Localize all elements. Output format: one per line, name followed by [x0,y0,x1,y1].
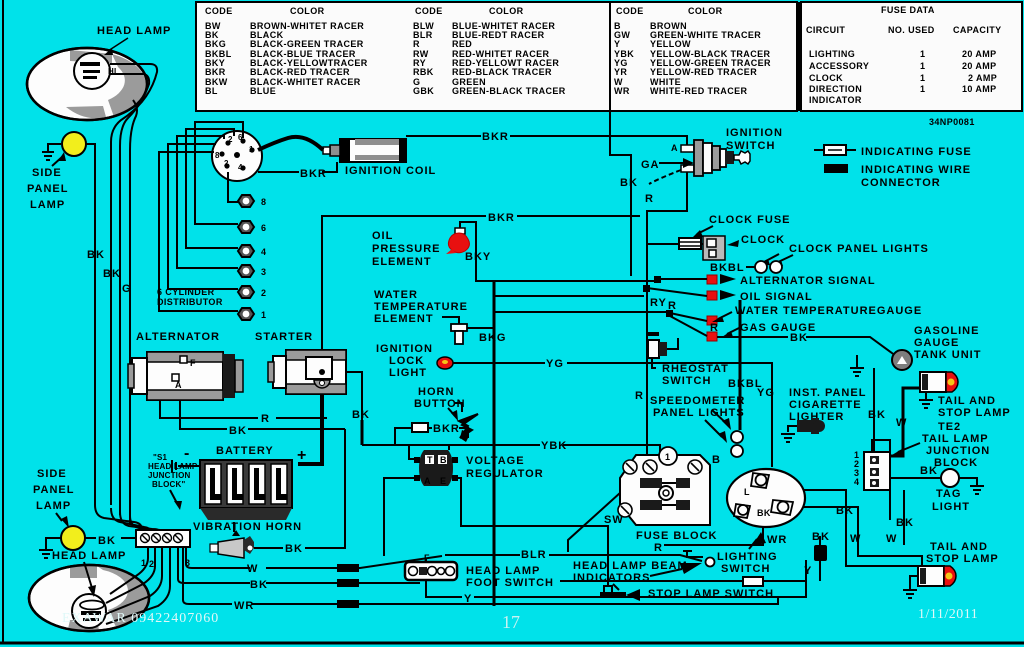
svg-text:PANEL: PANEL [33,484,74,496]
signal feeder junction dots [643,276,673,317]
head lamp bulb [74,53,116,89]
svg-text:1: 1 [665,452,670,462]
svg-text:R: R [654,542,663,554]
svg-text:"S1: "S1 [153,453,168,462]
wire head lamp bundle 3 [130,100,137,525]
svg-text:LIGHTING: LIGHTING [809,49,855,59]
svg-text:COLOR: COLOR [688,6,723,16]
svg-text:PRESSURE: PRESSURE [372,243,441,255]
svg-text:TE2: TE2 [938,421,961,433]
svg-text:JUNCTION: JUNCTION [148,471,191,480]
svg-text:BKG: BKG [205,39,226,49]
svg-text:1: 1 [920,61,925,71]
head lamp (top left) [27,48,147,120]
svg-text:INDICATING FUSE: INDICATING FUSE [861,146,972,158]
spark plug 6 [238,221,266,233]
svg-text:CIRCUIT: CIRCUIT [806,25,845,35]
svg-text:INDICATOR: INDICATOR [809,95,862,105]
svg-text:R: R [413,39,420,49]
legend indicating fuse [814,145,972,158]
svg-text:HEAD LAMP: HEAD LAMP [97,25,171,37]
battery negative terminal [172,460,200,472]
svg-text:R: R [645,193,654,205]
svg-text:BK: BK [98,535,116,547]
head lamp junction block (bottom left) [136,530,190,547]
svg-text:CODE: CODE [415,6,443,16]
svg-text:R: R [668,300,677,312]
svg-text:BK: BK [790,332,808,344]
svg-text:WR: WR [614,86,630,96]
svg-text:BK: BK [285,543,303,555]
svg-text:OIL SIGNAL: OIL SIGNAL [740,291,813,303]
wires junction block down to head lamp [106,547,170,624]
svg-text:ACCESSORY: ACCESSORY [809,61,869,71]
wire W upper lamp down [891,388,920,456]
wire regulator A to left down [384,478,414,556]
svg-text:34NP0081: 34NP0081 [929,117,975,127]
fuse block [618,447,710,525]
svg-text:8: 8 [215,151,220,160]
ignition switch [681,140,750,176]
svg-text:HEAD LAMP: HEAD LAMP [466,565,540,577]
svg-text:BLOCK: BLOCK [934,457,978,469]
svg-text:CAPACITY: CAPACITY [953,25,1002,35]
svg-text:1: 1 [249,145,254,154]
svg-text:LIGHTING: LIGHTING [717,551,778,563]
svg-text:F: F [190,358,196,368]
svg-text:BK: BK [229,425,247,437]
svg-text:GASOLINE: GASOLINE [914,325,979,337]
cigarette lighter [788,418,825,434]
svg-text:R: R [635,390,644,402]
wire BKG from water element down [479,281,506,606]
svg-text:STARTER: STARTER [255,331,313,343]
wire R alternator to right [160,400,327,425]
head lamp (bottom) [29,565,149,631]
svg-text:BKY: BKY [465,251,491,263]
svg-text:LIGHT: LIGHT [389,367,427,379]
side panel lamp (bottom) [61,526,85,550]
rheostat switch [648,332,678,368]
svg-text:CLOCK FUSE: CLOCK FUSE [709,214,791,226]
svg-text:VOLTAGE: VOLTAGE [466,455,525,467]
svg-text:2 AMP: 2 AMP [968,73,997,83]
head lamp beam indicators label [573,560,702,584]
wires from top into junction block [95,505,160,530]
svg-text:HEAD LAMP: HEAD LAMP [52,550,126,562]
clock panel lights label [758,243,929,266]
clock [703,236,725,260]
svg-text:STOP LAMP: STOP LAMP [926,553,999,565]
wire regulator E to stop lamp switch [458,478,608,586]
svg-text:A: A [424,476,431,486]
svg-text:B: B [712,454,721,466]
svg-text:1: 1 [920,73,925,83]
svg-text:SW: SW [604,514,624,526]
svg-text:PANEL: PANEL [27,183,68,195]
svg-text:BLACK-GREEN TRACER: BLACK-GREEN TRACER [250,39,364,49]
svg-text:BLOCK": BLOCK" [152,480,185,489]
alternator [128,352,243,400]
svg-text:-: - [184,445,189,462]
svg-text:BK: BK [103,268,121,280]
svg-text:LAMP: LAMP [36,500,71,512]
svg-text:BKR: BKR [433,423,460,435]
dash panel boundary wire BKR [322,212,640,420]
lighting switch [727,469,805,527]
starter [268,350,346,394]
side panel lamp label [27,152,68,211]
svg-text:FUSE BLOCK: FUSE BLOCK [636,530,718,542]
svg-text:BLACK-RED TRACER: BLACK-RED TRACER [250,67,350,77]
svg-text:A: A [175,380,182,390]
svg-text:4: 4 [854,477,859,487]
ground under upper tail lamp [919,392,933,408]
svg-text:IGNITION: IGNITION [726,127,783,139]
ground at tag light [959,478,984,494]
plug wire loop 2 [168,144,238,289]
lighting switch white dot [706,558,715,567]
svg-text:TEMPERATURE: TEMPERATURE [374,301,468,313]
spark plug 3 [238,265,266,277]
oil pressure element label [372,230,441,268]
spark plug 2 [238,286,266,298]
svg-text:BLUE: BLUE [250,86,276,96]
wire W bottom [186,547,442,575]
svg-text:TAIL AND: TAIL AND [938,395,996,407]
svg-text:HEAD LAMP BEAM: HEAD LAMP BEAM [573,560,688,572]
wire BK bottom [178,547,420,591]
wire BK horn to right [254,429,345,555]
wire WR bottom [183,547,778,612]
voltage regulator label [466,455,544,480]
tail and stop lamp lower label [926,541,999,565]
plug wire loop 3 [177,136,238,268]
svg-text:2: 2 [224,159,229,168]
svg-text:GAUGE: GAUGE [914,337,959,349]
svg-text:COLOR: COLOR [489,6,524,16]
svg-text:BKR: BKR [300,168,327,180]
svg-text:SWITCH: SWITCH [726,140,775,152]
svg-text:BKBL: BKBL [710,262,745,274]
svg-text:W: W [886,533,897,545]
svg-text:STOP LAMP: STOP LAMP [938,407,1011,419]
svg-text:B: B [440,455,447,465]
wire BK bottom side lamp [85,535,136,547]
wire Y vertical right [804,560,812,581]
head lamp label [97,25,171,55]
svg-text:BK: BK [920,465,938,477]
svg-text:SIDE: SIDE [32,167,62,179]
plug wire loop 4 [186,129,238,248]
svg-text:IGNITION: IGNITION [376,343,433,355]
rheostat switch label [662,363,729,387]
svg-text:L: L [744,487,750,497]
svg-text:INDICATING WIRE: INDICATING WIRE [861,164,971,176]
left border line [2,0,4,643]
tag light label [932,488,970,513]
wire loop to regulator left [409,446,414,459]
wire BKBL vertical [728,300,763,430]
svg-text:WATER: WATER [374,289,418,301]
svg-text:1: 1 [261,310,266,320]
svg-text:NO. USED: NO. USED [888,25,935,35]
svg-text:R: R [261,413,270,425]
svg-text:TAIL AND: TAIL AND [930,541,988,553]
svg-text:PANEL LIGHTS: PANEL LIGHTS [653,407,745,419]
svg-text:4: 4 [261,247,266,257]
ignition lock light label [376,343,433,379]
clock fuse [647,238,701,249]
inst panel cigarette lighter label [789,387,866,423]
plug wire cap to 8 [228,172,238,202]
svg-text:IGNITION COIL: IGNITION COIL [345,165,436,177]
svg-text:RY: RY [650,297,667,309]
svg-text:BATTERY: BATTERY [216,445,274,457]
svg-text:RED-BLACK TRACER: RED-BLACK TRACER [452,67,552,77]
svg-text:CIGARETTE: CIGARETTE [789,399,862,411]
svg-text:YR: YR [614,67,627,77]
speedometer panel lights label [650,395,745,419]
battery [200,460,292,520]
svg-text:WHITE-RED TRACER: WHITE-RED TRACER [650,86,747,96]
svg-text:SIDE: SIDE [37,468,67,480]
oil signal lamp [707,290,813,303]
svg-text:RED: RED [452,39,472,49]
fuse data table [799,2,1022,111]
tail and stop lamp upper label [938,395,1011,419]
gasoline tank unit [892,350,912,370]
wire BKR coil to ignition switch [406,131,687,145]
svg-text:2: 2 [261,288,266,298]
svg-text:FOOT SWITCH: FOOT SWITCH [466,577,554,589]
wire side lamp to bottom [86,144,95,505]
svg-text:BKR: BKR [205,67,226,77]
water temperature gauge lamp [707,305,922,325]
wires BK and W to lower tail lamp [802,440,922,566]
svg-text:VIBRATION HORN: VIBRATION HORN [193,521,302,533]
wire oil signal feed [494,311,668,313]
wire BK tank unit down [868,368,886,452]
battery label [184,445,306,464]
ignition lock light [437,357,453,369]
svg-text:BK: BK [250,579,268,591]
svg-text:Y: Y [464,593,472,605]
svg-text:YELLOW-RED TRACER: YELLOW-RED TRACER [650,67,757,77]
svg-text:LIGHT: LIGHT [932,501,970,513]
svg-text:STOP LAMP SWITCH: STOP LAMP SWITCH [648,588,774,600]
svg-text:CLOCK PANEL LIGHTS: CLOCK PANEL LIGHTS [789,243,929,255]
svg-text:1: 1 [920,84,925,94]
svg-text:BK: BK [868,409,886,421]
svg-text:BK: BK [352,409,370,421]
svg-text:YBK: YBK [541,440,567,452]
color code table box 2 [610,2,797,111]
svg-text:COLOR: COLOR [290,6,325,16]
svg-text:BK: BK [812,531,830,543]
wire R rheostat down [635,302,647,460]
svg-text:WATER TEMPERATUREGAUGE: WATER TEMPERATUREGAUGE [735,305,922,317]
svg-text:SWITCH: SWITCH [662,375,711,387]
ignition switch label [726,127,783,152]
diode on Y wire [812,531,830,581]
water temperature element label [374,289,468,325]
ground under lower tail lamp [903,576,918,598]
clock fuse label [692,214,791,238]
svg-text:20 AMP: 20 AMP [962,49,997,59]
svg-text:1: 1 [920,49,925,59]
wire BK alternator down [180,400,345,437]
wire fuse block diagonal to BLR [568,483,631,552]
svg-text:SPEEDOMETER: SPEEDOMETER [650,395,745,407]
svg-text:2: 2 [149,559,154,569]
svg-text:G: G [122,283,132,295]
tail and stop lamp upper [920,372,958,392]
head lamp foot switch label [466,565,554,589]
svg-text:CODE: CODE [205,6,233,16]
plug wire loop 1 [159,152,238,311]
svg-text:LOCK: LOCK [389,355,424,367]
wire YG lock light to rheostat [453,358,772,467]
horn fuse BKR [395,423,468,445]
svg-text:YG: YG [546,358,564,370]
wire R ignition switch down [645,170,687,302]
wire Y from foot switch [426,560,806,605]
svg-text:8: 8 [261,197,266,207]
pointer head lamp bottom [84,562,92,588]
head lamp junction block label (small) [148,453,198,510]
svg-text:TAIL LAMP: TAIL LAMP [922,433,989,445]
svg-text:YG: YG [757,387,775,399]
wire BK starter right down [346,372,370,445]
svg-text:TANK UNIT: TANK UNIT [914,349,981,361]
svg-text:17: 17 [502,612,520,632]
svg-text:WR: WR [767,534,787,546]
thick wire distributor to coil [258,137,323,150]
svg-text:JUNCTION: JUNCTION [926,445,990,457]
alternator signal lamp [707,274,876,287]
svg-text:GBK: GBK [413,86,434,96]
svg-text:+: + [297,447,306,464]
svg-text:4: 4 [238,163,243,172]
ground at side panel lamp [42,144,61,160]
TE2 junction block [864,452,890,490]
svg-text:RBK: RBK [413,67,434,77]
wire regulator top to YBK [448,445,450,450]
wire GA arrow to switch [641,158,694,171]
svg-text:CODE: CODE [616,6,644,16]
vibration horn [210,522,254,558]
svg-text:ALTERNATOR SIGNAL: ALTERNATOR SIGNAL [740,275,876,287]
horn button label [414,386,466,412]
wire YBK [362,440,660,455]
6 cylinder distributor label [157,287,223,307]
svg-text:BK: BK [757,508,771,518]
svg-text:BK: BK [620,177,638,189]
head lamp foot switch [405,553,457,580]
svg-text:2: 2 [228,135,233,144]
bottom border line [0,642,1024,645]
spark plug 1 [238,308,266,320]
wire WR label [767,534,787,546]
wire head lamp bundle 1 [110,64,157,505]
distributor cap [212,131,262,181]
spark plug 8 [238,195,266,207]
svg-text:CONNECTOR: CONNECTOR [861,177,941,189]
svg-text:R: R [710,322,719,334]
ground at cigarette lighter [781,434,795,442]
svg-text:BKG: BKG [479,332,506,344]
svg-text:INDICATORS: INDICATORS [573,572,650,584]
svg-text:LAMP: LAMP [30,199,65,211]
spark plug 4 [238,245,266,257]
svg-text:YELLOW: YELLOW [650,39,691,49]
speedometer panel lights [705,410,743,457]
tag light [890,465,959,487]
clock label [727,234,785,247]
svg-text:1/11/2011: 1/11/2011 [918,607,978,622]
oil pressure element [446,228,469,254]
color code table box 1 [196,2,610,111]
svg-text:A: A [671,143,678,153]
fuse block labels [604,454,763,554]
ground at bottom side lamp [39,538,61,558]
svg-text:CLOCK: CLOCK [741,234,785,246]
svg-text:BK: BK [87,249,105,261]
wire BKR distributor to coil bottom [258,162,337,180]
stop lamp switch symbol [600,584,640,601]
wire head lamp bundle 2 [110,74,149,515]
side panel lamp bottom label [33,468,74,528]
svg-text:ELEMENT: ELEMENT [374,313,434,325]
svg-text:E: E [440,476,446,486]
svg-text:EXAWAR 09422407060: EXAWAR 09422407060 [62,611,219,626]
gasoline gauge tank unit label [914,325,981,361]
stop lamp fuse on wire [560,577,806,586]
junction block pin numbers [141,558,190,569]
clock panel lights [746,261,782,273]
svg-text:BKR: BKR [482,131,509,143]
svg-text:GREEN-BLACK TRACER: GREEN-BLACK TRACER [452,86,566,96]
svg-text:TAG: TAG [936,488,961,500]
svg-text:WR: WR [234,600,254,612]
svg-text:HORN: HORN [418,386,454,398]
svg-text:BLR: BLR [521,549,547,561]
svg-text:6: 6 [261,223,266,233]
svg-text:GA: GA [641,159,660,171]
svg-text:HEAD LAMP: HEAD LAMP [148,462,198,471]
wire BLR from foot switch [445,549,702,561]
svg-text:REGULATOR: REGULATOR [466,468,544,480]
water temperature element [442,317,494,344]
svg-text:W: W [247,563,258,575]
wire BK ignition switch down [610,111,638,276]
svg-text:CLOCK: CLOCK [809,73,843,83]
svg-text:RHEOSTAT: RHEOSTAT [662,363,729,375]
svg-text:10 AMP: 10 AMP [962,84,997,94]
wire BKBL to clock lights [701,244,745,274]
ground top right of lighter [850,355,864,376]
svg-text:INST. PANEL: INST. PANEL [789,387,866,399]
battery cable starter down [298,394,322,464]
svg-text:20 AMP: 20 AMP [962,61,997,71]
beam indicator bracket [683,551,703,557]
tail and stop lamp lower [918,566,956,586]
lighting switch label [717,532,778,575]
horn button [448,408,478,442]
svg-text:W: W [850,533,861,545]
svg-text:BKR: BKR [488,212,515,224]
